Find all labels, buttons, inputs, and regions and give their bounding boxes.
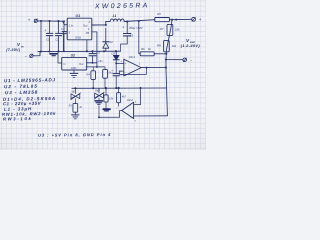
resistor R2 [73, 104, 78, 113]
node dot u31out [165, 66, 167, 68]
wire input plus rail [38, 20, 63, 22]
svg-text:C3: C3 [130, 34, 134, 38]
svg-text:-: - [130, 103, 131, 107]
node dot d3 [115, 62, 117, 64]
capacitor C5 [92, 51, 94, 53]
IC U1 box [67, 18, 92, 40]
svg-text:C4: C4 [119, 69, 123, 73]
paper background [0, 0, 206, 150]
output plus terminal [192, 17, 196, 21]
svg-text:R8: R8 [157, 44, 161, 48]
svg-text:+5v: +5v [98, 59, 103, 63]
capacitor C6 (written C4) at op-amp [115, 63, 117, 73]
svg-text:(7-35V): (7-35V) [6, 48, 21, 52]
node dot out [105, 24, 107, 26]
svg-text:10k: 10k [109, 96, 114, 100]
svg-text:RW3-10k: RW3-10k [3, 116, 33, 122]
svg-text:+: + [125, 62, 127, 66]
node dot c5 [92, 62, 94, 64]
resistor R3 [102, 67, 106, 70]
capacitor C1 [49, 21, 51, 33]
wire minus to gnd rail [33, 52, 40, 56]
capacitor C3 [126, 22, 128, 34]
svg-text:10k: 10k [172, 44, 177, 48]
svg-text:GND: GND [71, 67, 77, 70]
wire branch x41 [40, 21, 42, 52]
U1 on-off pin wire [63, 32, 67, 52]
svg-text:Out: Out [79, 62, 84, 66]
wire fb junction [86, 66, 102, 68]
diode D3 [115, 51, 117, 55]
svg-text:U2 - 78L05: U2 - 78L05 [4, 84, 38, 90]
resistor R8 [164, 41, 170, 52]
wire U2 out +5v [87, 62, 97, 64]
op-amp U3.1 [124, 59, 141, 76]
wire C3 to gnd rail [121, 44, 128, 51]
svg-text:-: - [125, 70, 126, 74]
svg-text:5k1: 5k1 [108, 70, 113, 74]
node dot r6 [165, 53, 167, 55]
resistor R10 [118, 88, 120, 93]
svg-text:GND: GND [75, 36, 81, 40]
svg-text:U3 - LM358: U3 - LM358 [5, 90, 38, 96]
node dot vplus [171, 19, 173, 21]
wire U3.2 plus input [134, 115, 168, 117]
gnd rail dots [40, 50, 42, 52]
wire U3.1 plus input [116, 62, 124, 64]
ground bar mark [50, 53, 57, 55]
svg-text:D2: D2 [109, 40, 113, 44]
svg-text:L1: L1 [113, 14, 117, 18]
ink smudge mark [103, 108, 109, 110]
svg-text:450µ ×50V: 450µ ×50V [129, 26, 144, 30]
wire after L1 [124, 20, 155, 22]
shading vignette [0, 0, 206, 150]
svg-text:R5: R5 [157, 12, 161, 16]
op-amp U3.2 [122, 102, 134, 118]
output minus terminal [183, 58, 187, 62]
ground symbol U2 [70, 72, 78, 74]
svg-text:U3.1: U3.1 [129, 55, 136, 59]
svg-text:C5: C5 [97, 50, 101, 54]
svg-text:R1: R1 [69, 103, 73, 107]
resistor R9 [105, 88, 107, 95]
wire R6 right [154, 53, 166, 55]
wire gnd rail [38, 50, 121, 52]
wire U3.2 output [99, 111, 122, 118]
diode D2 [105, 28, 107, 42]
wire R5 to plus [169, 18, 191, 20]
svg-text:1 In: 1 In [69, 23, 74, 27]
node dot A2 [48, 20, 50, 22]
ground symbol W2 [95, 100, 103, 102]
wire to minus terminal [166, 59, 183, 61]
capacitor C4 [63, 21, 65, 31]
svg-text:+: + [122, 26, 124, 30]
node dot A3 [57, 20, 59, 22]
svg-text:R7: R7 [160, 27, 164, 31]
wire U3.1 output [141, 67, 166, 69]
svg-text:C4: C4 [61, 27, 65, 31]
node dot A4 [63, 20, 65, 22]
IC U2 box [62, 57, 87, 70]
svg-text:U1: U1 [76, 14, 81, 18]
svg-text:U2: U2 [71, 54, 75, 58]
svg-text:+: + [44, 29, 46, 33]
inductor L1 [110, 19, 124, 22]
svg-text:D3: D3 [111, 52, 115, 56]
svg-text:Out: Out [83, 23, 88, 27]
grid lines [0, 0, 206, 150]
resistor R4 [92, 67, 94, 71]
wire U3.1 feedback [120, 68, 147, 75]
svg-text:+: + [199, 18, 202, 23]
svg-text:C2: C2 [55, 38, 59, 42]
svg-text:R6: R6 [141, 47, 145, 51]
svg-text:XW0265RA: XW0265RA [94, 2, 150, 10]
svg-text:FB: FB [86, 31, 90, 35]
svg-text:10k: 10k [175, 28, 180, 32]
U2 gnd pin [73, 70, 75, 73]
svg-text:+: + [28, 18, 31, 23]
node dot C3 top [126, 21, 128, 23]
U1 fb pin wire [92, 32, 97, 67]
resistor R7 [167, 24, 173, 35]
capacitor C2 [58, 21, 60, 33]
svg-text:C1: C1 [46, 38, 50, 42]
mid bus dots [74, 87, 76, 89]
resistor R5 [155, 18, 170, 22]
wire divider vertical [166, 20, 172, 116]
node dot A1 [40, 20, 42, 22]
wire U2 in [58, 52, 62, 63]
wire R6 left [139, 53, 140, 55]
svg-text:in: in [21, 44, 24, 48]
svg-text:U1 - LM2596S-ADJ: U1 - LM2596S-ADJ [4, 77, 56, 83]
node dot fbchain [138, 20, 140, 22]
resistor R6 [140, 52, 154, 56]
wire mid bus [72, 87, 167, 89]
U1 gnd pin wire [86, 40, 88, 52]
svg-text:(1.2-40V): (1.2-40V) [181, 43, 201, 48]
svg-text:R4: R4 [86, 73, 90, 77]
svg-text:U3 : +5V Pin 8, GND Pin: U3 : +5V Pin 8, GND Pin 4 [38, 132, 111, 138]
node dot vminus [165, 59, 167, 61]
wire U3.2 minus input [134, 88, 141, 105]
wire fb chain down [138, 21, 140, 54]
svg-text:U3.2: U3.2 [127, 98, 134, 102]
wire U1 out [92, 21, 110, 25]
ground symbol W1 [72, 114, 79, 116]
